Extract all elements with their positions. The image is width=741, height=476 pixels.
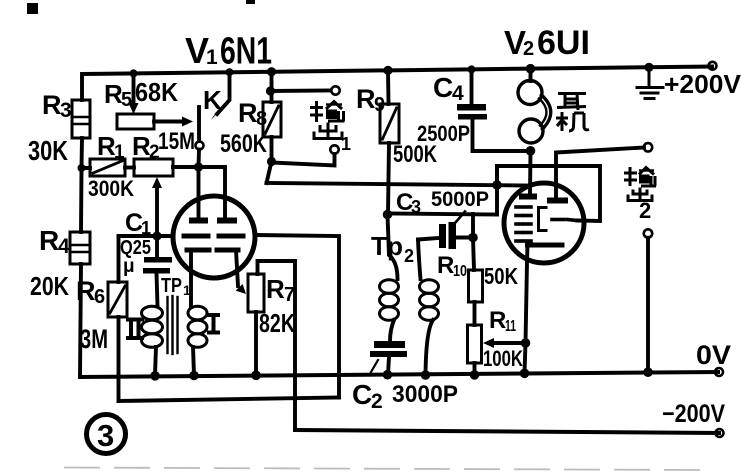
svg-text:9: 9 xyxy=(374,94,385,116)
switch K pole xyxy=(197,107,201,141)
terminal output2 top xyxy=(644,143,652,151)
svg-text:6UI: 6UI xyxy=(537,24,590,62)
transformer Tp2 winding primary xyxy=(380,280,399,321)
V2 triode grid dashes xyxy=(552,220,577,221)
potentiometer R5 xyxy=(117,114,154,129)
svg-text:5000P: 5000P xyxy=(431,188,489,211)
label winding I xyxy=(207,315,220,333)
svg-text:2: 2 xyxy=(639,198,651,223)
node Tp1-II-0V xyxy=(150,371,160,381)
node bus-R8 xyxy=(267,67,276,76)
wire R11 to 0V xyxy=(473,363,477,375)
capacitor C3 plates xyxy=(439,222,456,249)
switch K contact circle xyxy=(196,142,204,150)
terminal output1 bottom xyxy=(330,145,338,153)
svg-text:4: 4 xyxy=(58,235,70,258)
svg-text:R: R xyxy=(42,90,62,120)
V1 plate b xyxy=(217,218,237,224)
wire R1 to R2 xyxy=(125,166,134,170)
wire C3 line vertical xyxy=(495,166,499,215)
headphone earpiece bottom xyxy=(519,119,543,143)
V2 screen bracket xyxy=(539,208,547,231)
svg-text:30K: 30K xyxy=(28,135,68,166)
svg-text:6N1: 6N1 xyxy=(220,31,272,73)
wire bus to C4 xyxy=(470,69,474,104)
arrow K xyxy=(211,110,220,120)
wire R3 to node xyxy=(80,138,84,168)
terminal 0V xyxy=(715,368,723,376)
node bus-C4 xyxy=(468,65,476,73)
wire R5 to K arrow xyxy=(154,120,184,124)
resistor R7 xyxy=(248,274,264,312)
scan tick top xyxy=(246,0,255,4)
wire anode node to both plates xyxy=(199,167,226,218)
tube V1 envelope xyxy=(173,196,255,278)
wire output2 bottom to 0V xyxy=(646,238,650,372)
svg-text:μ: μ xyxy=(123,256,135,277)
terminal +200V xyxy=(709,62,717,70)
wire R7 bottom to 0V xyxy=(254,312,258,375)
wire R4 to 0V rail xyxy=(80,264,81,377)
svg-text:560K: 560K xyxy=(220,130,267,158)
wire R11 wiper shaft xyxy=(492,341,526,345)
terminal output1 top xyxy=(331,86,339,94)
node V1 anode xyxy=(194,162,203,171)
V1 grid b dashes xyxy=(219,234,243,239)
svg-text:R: R xyxy=(437,252,454,279)
svg-text:K: K xyxy=(203,85,222,115)
label output2 char shu xyxy=(624,167,656,186)
svg-text:300K: 300K xyxy=(88,176,134,201)
capacitor C4 xyxy=(457,104,487,120)
node C2-0V xyxy=(383,370,393,380)
wire V2 cathode down xyxy=(525,245,528,373)
svg-text:0V: 0V xyxy=(696,340,731,370)
wire R10 node to box xyxy=(473,238,474,271)
V1 cathode b xyxy=(217,248,238,253)
wire +200V top bus xyxy=(83,67,712,75)
figure number 3 circled xyxy=(87,415,126,454)
wire C3 bottom line xyxy=(388,214,498,215)
svg-text:TP: TP xyxy=(161,275,182,297)
V2 pentode grid dashes xyxy=(516,207,531,241)
wire grid a node line xyxy=(119,234,174,238)
node C3 top line xyxy=(492,180,502,190)
wire phone node to V2 plate xyxy=(528,151,532,194)
wire grid b to loop xyxy=(255,235,339,398)
svg-text:R: R xyxy=(356,84,376,114)
svg-text:R: R xyxy=(238,98,258,128)
V2 pentode plate xyxy=(519,194,537,200)
arrow R2 wiper xyxy=(152,177,162,188)
svg-text:10: 10 xyxy=(453,263,467,280)
resistor R10 xyxy=(469,270,483,302)
wire bus to R9 xyxy=(386,70,390,104)
wire R10 to R11 xyxy=(473,302,477,325)
svg-text:3M: 3M xyxy=(80,324,108,354)
svg-text:8: 8 xyxy=(256,108,267,130)
svg-text:+200V: +200V xyxy=(664,69,741,99)
V1 cathode a xyxy=(187,248,209,253)
svg-text:68K: 68K xyxy=(135,77,178,107)
wire grid line to R6 xyxy=(117,236,121,282)
headphone earpiece top xyxy=(518,81,542,105)
svg-text:R: R xyxy=(266,274,285,304)
label earphone char er xyxy=(557,94,586,111)
svg-text:5: 5 xyxy=(121,89,132,111)
node V2 cathode-0V xyxy=(520,369,530,379)
node phone bottom xyxy=(526,146,536,156)
V1 plate a xyxy=(189,218,208,224)
resistor R3 xyxy=(72,100,90,138)
wire R7 top to -200V xyxy=(258,261,296,430)
svg-text:2500P: 2500P xyxy=(417,121,470,146)
wire C3 top line xyxy=(267,183,530,186)
node bus-phone xyxy=(526,64,536,74)
wire R6 to loop bottom xyxy=(117,317,121,401)
svg-text:7: 7 xyxy=(284,284,295,306)
wire V2 grid box xyxy=(497,166,600,221)
potentiometer R2 xyxy=(134,159,173,176)
node R9-C3 xyxy=(383,210,393,220)
svg-text:−200V: −200V xyxy=(662,400,725,428)
svg-text:2: 2 xyxy=(523,38,534,60)
tube V2 envelope xyxy=(504,183,584,263)
wire -200V rail xyxy=(295,430,719,433)
resistor R9 xyxy=(380,104,399,143)
resistor R11 xyxy=(468,325,482,363)
terminal -200V xyxy=(716,429,724,437)
transformer Tp2 winding primary lead xyxy=(388,215,398,279)
svg-text:Tp: Tp xyxy=(371,231,403,261)
node Tp2-0V xyxy=(421,370,431,380)
node cathode-wiper xyxy=(521,338,531,348)
capacitor C2 xyxy=(370,341,407,357)
wire R2 wiper shaft xyxy=(155,186,159,236)
node Tp1-I-0V xyxy=(189,371,199,381)
wire C3 right plate to R10 node xyxy=(456,236,473,240)
wire Tp2 to C3 left plate xyxy=(418,238,439,240)
wire winding II to 0V xyxy=(155,347,156,375)
wire bus to phone xyxy=(529,69,533,81)
wire R2 to anode node xyxy=(173,165,199,169)
arrow cathode to R7 xyxy=(236,284,246,294)
wire 0V rail xyxy=(80,372,718,377)
node bus-R5 xyxy=(130,69,138,77)
label output1 char shu xyxy=(310,101,345,122)
svg-text:1: 1 xyxy=(114,142,125,163)
label earphone char ji xyxy=(556,112,589,131)
wire V2 triode plate to output2 xyxy=(556,148,644,198)
V2 triode plate xyxy=(547,198,568,204)
svg-text:C: C xyxy=(352,379,372,410)
V1 grid a dashes xyxy=(184,234,208,239)
wire C1 to Tp1 winding II xyxy=(157,273,158,306)
resistor R6 xyxy=(108,282,127,317)
node R7-0V xyxy=(251,371,261,381)
node bus-ground xyxy=(644,63,653,72)
svg-text:3: 3 xyxy=(97,418,114,453)
node bus-K xyxy=(226,68,234,76)
label winding II xyxy=(126,320,144,339)
wire C2 to 0V xyxy=(388,357,389,374)
wire winding I to 0V xyxy=(193,347,194,375)
svg-text:1: 1 xyxy=(341,134,351,154)
transformer Tp1 winding II xyxy=(142,306,163,347)
svg-text:11: 11 xyxy=(505,318,516,335)
svg-text:2: 2 xyxy=(404,246,414,266)
wire R10 node vertical xyxy=(471,214,475,238)
wire Tp2 primary to C2 xyxy=(390,320,394,341)
wire node to C1 xyxy=(155,236,159,257)
pointer C2 label xyxy=(371,360,378,372)
wire K from bus xyxy=(217,74,230,114)
svg-text:3000P: 3000P xyxy=(392,381,458,408)
terminal output2 bottom xyxy=(644,229,652,237)
wire R8 bottom xyxy=(270,137,274,161)
svg-text:C: C xyxy=(433,72,453,103)
V2 cathode xyxy=(528,243,563,248)
svg-text:4: 4 xyxy=(452,82,464,105)
svg-text:1: 1 xyxy=(183,282,191,298)
node bus-R9 xyxy=(383,66,392,75)
label output2 char chu xyxy=(628,188,652,201)
ground xyxy=(637,67,663,99)
svg-text:R: R xyxy=(39,225,59,256)
transformer Tp2 secondary lead xyxy=(418,240,421,280)
node C1-grid xyxy=(152,231,161,240)
scan artifact bottom line xyxy=(65,468,700,471)
svg-text:R: R xyxy=(489,307,506,334)
svg-text:2: 2 xyxy=(371,390,383,413)
arrow R11 wiper xyxy=(483,338,494,348)
svg-text:R: R xyxy=(76,276,96,306)
wire cathode a to Tp1 winding I xyxy=(189,250,193,306)
node R11-0V xyxy=(470,370,480,380)
wire Tp2 secondary to 0V xyxy=(426,320,434,375)
wire K circle to anode node xyxy=(197,150,201,168)
resistor R1 xyxy=(90,159,125,176)
svg-text:15M: 15M xyxy=(158,128,195,155)
svg-text:3: 3 xyxy=(60,99,72,122)
transformer Tp1 winding I xyxy=(188,306,207,347)
node R3-R1-R4 xyxy=(78,164,86,172)
label V2 6UI xyxy=(504,24,590,62)
wire bus to R8 xyxy=(270,72,274,102)
svg-text:3: 3 xyxy=(411,197,421,217)
label V1 6N1 xyxy=(185,30,272,73)
label output1 char chu xyxy=(314,123,342,139)
arrow R5 wiper xyxy=(129,103,139,114)
resistor R8 xyxy=(263,102,281,137)
wire node to R1 xyxy=(82,166,91,170)
svg-text:6: 6 xyxy=(94,286,105,308)
node output2-0V xyxy=(643,367,653,377)
wire C3 diagonal tap xyxy=(455,212,465,224)
node R10 top xyxy=(468,233,478,243)
scan blob top-left xyxy=(27,3,38,14)
svg-text:20K: 20K xyxy=(30,271,69,301)
node R8 bottom xyxy=(267,157,276,166)
wire R5 wiper from bus xyxy=(132,74,136,106)
node output1 top tap xyxy=(266,86,275,95)
transformer Tp2 secondary xyxy=(420,280,439,321)
wire R9 bottom xyxy=(388,143,389,214)
wire left column xyxy=(80,74,84,100)
wire node to output1 bottom xyxy=(272,154,335,166)
transformer Tp1 core xyxy=(168,296,178,354)
svg-text:50K: 50K xyxy=(484,263,518,289)
wire C4 to phone node xyxy=(473,119,531,151)
wire loop bottom xyxy=(119,398,340,402)
capacitor C1 xyxy=(143,257,172,274)
wire to output1 top xyxy=(271,89,331,93)
wire cathode b to R7 wiper xyxy=(236,250,238,286)
wire R8 node to C3 line xyxy=(267,162,272,184)
headphone band xyxy=(542,95,551,129)
arrow R5 to K xyxy=(182,117,193,127)
svg-text:82K: 82K xyxy=(259,308,295,338)
svg-text:1: 1 xyxy=(141,218,151,238)
svg-text:1: 1 xyxy=(206,46,218,69)
resistor R4 xyxy=(70,232,90,264)
svg-text:100K: 100K xyxy=(483,346,523,371)
wire node to R4 xyxy=(79,168,83,232)
